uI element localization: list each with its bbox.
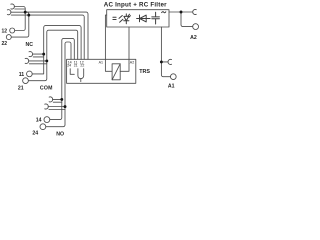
varistor symbol inside U1 (119, 16, 123, 23)
svg-text:12: 12 (1, 28, 7, 34)
relay internal contact pin 24 leg (70, 69, 74, 75)
plug contact arc (NC tip, pole 2) (7, 10, 11, 15)
wire net12 top run into relay pin 12 (25, 12, 88, 59)
svg-text:AC Input + RC Filter: AC Input + RC Filter (104, 1, 167, 8)
AC tilde marking inside U1 (162, 12, 166, 13)
plug contact arc (COM tip, pole 1) (29, 52, 33, 57)
rectifier DC marking inside U1 (113, 17, 116, 19)
wire arc3 pin line (33, 56, 44, 58)
terminal circle A2 (193, 24, 199, 30)
plug contact arc (NO tip, pole 2) (45, 104, 49, 109)
terminal circle A1 (170, 74, 176, 80)
wire net24 rail and top run into relay pin 24 (46, 42, 71, 127)
plug contact arc (NO tip, pole 1) (49, 97, 53, 102)
relay internal contact 21-22 bridge (78, 69, 84, 79)
wire arc5 tail to node d5 (53, 98, 62, 100)
svg-text:24: 24 (67, 64, 71, 68)
junction node d6 (64, 105, 67, 108)
svg-text:A1: A1 (99, 60, 103, 64)
wire arc4 tail to node d4 (29, 60, 47, 62)
wire net22 top run into relay pin 22 (29, 15, 84, 59)
wire terminal 12 riser to node A (15, 12, 26, 30)
LED D1 inside U1 (124, 14, 131, 24)
suppressor diode pair D2 inside U1 (137, 15, 151, 22)
svg-text:24: 24 (32, 130, 38, 136)
wire arc4 pin line (29, 63, 47, 65)
wire net14 rail and top run into relay pin 14 (50, 38, 75, 119)
wire node A2 drop to terminal A2 (181, 12, 193, 27)
svg-text:COM: COM (40, 86, 53, 92)
wire arc6 tail to node d6 (48, 106, 65, 108)
relay K1 box outline (67, 59, 136, 83)
terminal circle 21 (23, 78, 29, 84)
wire U1 right stub to A2 contact (169, 11, 193, 13)
wire arc6 pin line (49, 109, 65, 111)
junction node A2 (180, 11, 183, 14)
relay internal contact actuator tick (80, 79, 82, 82)
svg-text:11: 11 (19, 72, 25, 78)
relay coil diagonal (112, 64, 120, 80)
svg-text:A2: A2 (190, 35, 197, 41)
junction node B (27, 14, 30, 17)
junction node d5 (60, 98, 63, 101)
wire net11 rail and top run into relay pin 11 (32, 26, 81, 74)
junction node d3 (42, 53, 45, 56)
terminal circle 12 (10, 28, 15, 33)
wire arc2 pin line (11, 14, 29, 16)
plug contact arc (COM tip, pole 2) (25, 58, 29, 63)
wire U1 left stub down to coil (A1 branch) (105, 15, 112, 71)
wire arc5 pin line (53, 101, 62, 103)
junction node d4 (45, 59, 48, 62)
svg-text:NC: NC (26, 42, 34, 48)
svg-text:22: 22 (1, 41, 7, 47)
wire U1 bottom to coil right side (A2 branch) (120, 27, 129, 71)
svg-text:A2: A2 (130, 60, 134, 64)
terminal circle 22 (6, 35, 11, 40)
wire TRS node to A1 contact arc (161, 61, 168, 63)
wire arc1 pin line (15, 8, 25, 10)
relay pin labels row 1 (67, 60, 134, 67)
wire terminal 22 riser to node B (11, 15, 29, 37)
plug contact arc (coil A2) (193, 9, 197, 14)
wire arc2 tail to node B (11, 12, 29, 15)
terminal circle 24 (40, 124, 46, 130)
junction node A (24, 11, 27, 14)
plug contact arc (NC tip, pole 1) (11, 4, 15, 9)
svg-text:TRS: TRS (139, 69, 150, 75)
capacitor C1 inside U1 (152, 12, 160, 24)
svg-text:NO: NO (56, 131, 64, 137)
terminal circle 14 (44, 117, 50, 123)
svg-text:21: 21 (74, 64, 78, 68)
svg-text:21: 21 (18, 85, 24, 91)
wire U1 bottom to TRS node (160, 27, 162, 62)
terminal circle 11 (27, 71, 33, 77)
filter box U1 outline (107, 10, 169, 27)
wire arc3 tail to node d3 (32, 53, 43, 55)
wire TRS node drop to terminal A1 (161, 62, 170, 77)
wire net21 rail and top run into relay pin 21 (28, 30, 77, 80)
plug contact arc (coil A1) (168, 59, 172, 64)
relay coil symbol (112, 64, 120, 80)
svg-text:A1: A1 (168, 84, 175, 90)
svg-text:14: 14 (36, 118, 42, 124)
svg-text:22: 22 (80, 64, 84, 68)
junction node TRS/A1 (160, 60, 163, 63)
wire arc1 tail to node A (14, 7, 25, 13)
